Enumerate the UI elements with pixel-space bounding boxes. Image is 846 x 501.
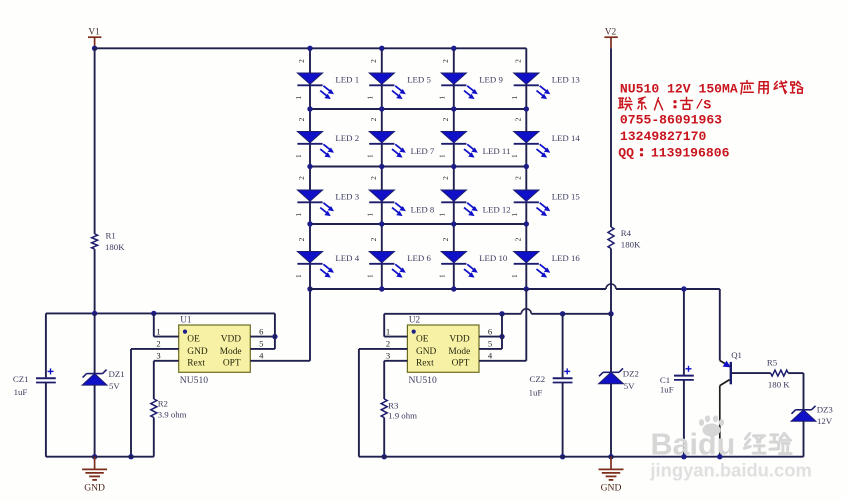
label R1 value 180K [105,242,125,252]
junction dot row tie 2 col4 [524,164,529,169]
svg-text:LED 5: LED 5 [407,75,431,85]
svg-text:LED 2: LED 2 [335,133,359,143]
wire R3 to ground rail [383,418,385,457]
label LED 15 [552,192,581,202]
zener diode DZ3 [791,406,816,422]
label R1 [106,230,116,240]
pin number U1.6 [259,326,264,336]
svg-text:2: 2 [513,176,522,180]
label U1 part NU510 [180,375,208,386]
pin number LED 3.2 [297,176,306,180]
label DZ2 value 5V [624,381,635,391]
svg-text:R1: R1 [106,230,116,240]
wire CZ1 to ground rail [45,383,47,457]
label R4 value 180K [621,239,641,249]
junction dot column1 rail A [307,286,312,291]
label DZ3 value 12V [817,416,833,426]
svg-text:2: 2 [369,59,378,63]
svg-text:1: 1 [366,274,375,278]
svg-text:CZ2: CZ2 [530,374,546,384]
junction dot row tie 3 col1 [307,221,312,226]
pin number LED 2.1 [294,154,303,158]
wire B2 to DZ2 [610,314,612,373]
LED LED 16 [514,252,551,278]
svg-text:1139196806: 1139196806 [651,146,730,161]
svg-text:2: 2 [297,59,306,63]
pin number LED 7.1 [366,154,375,158]
note line2 cjk [619,97,693,110]
svg-text:OPT: OPT [452,359,470,369]
svg-text:Baidu: Baidu [651,428,736,462]
watermark baidu jingyan [649,415,811,480]
junction dot rail A col2 [379,286,384,291]
label R5 value 180K [768,380,790,390]
label LED 5 [407,75,431,85]
junction dot top rail col2 [379,46,384,51]
label LED 9 [479,75,503,85]
label LED 8 [411,205,435,215]
wire rail A left segment [310,288,606,290]
svg-text:2: 2 [386,339,390,349]
wire U2 pin2 to ground [359,349,408,457]
svg-text:1: 1 [510,154,519,158]
label LED 6 [407,253,431,263]
junction dot U1 pin6 [272,334,277,339]
svg-text:2: 2 [297,117,306,121]
svg-text:LED 15: LED 15 [552,192,581,202]
junction dot row tie 3 col4 [524,221,529,226]
svg-text:5: 5 [259,339,263,349]
note line3 [620,113,722,128]
pin number LED 14.2 [513,117,522,121]
junction dot row tie 1 col2 [379,106,384,111]
svg-text:2: 2 [513,117,522,121]
label U2 [409,315,421,325]
junction dot C1 top [681,286,686,291]
wire rail A right segment [616,288,720,290]
wire U1 pin4 OPT to LED column 1 [250,289,310,361]
wire V2 vertical to R4 [610,48,612,227]
svg-text:Mode: Mode [220,347,242,357]
svg-text:4: 4 [259,351,264,361]
note line4 [620,129,707,144]
svg-text:jingyan.baidu.com: jingyan.baidu.com [649,460,811,481]
svg-text:LED 10: LED 10 [479,253,508,263]
capacitor CZ1 [36,368,56,382]
wire LED column 4 vertical [525,48,527,289]
svg-text:Mode: Mode [448,347,470,357]
junction dot R3 ground [382,454,387,459]
note line5 colon [641,149,642,155]
wire U2 pin5 tie to pin6 and B2 [479,314,502,349]
note line2 latin [696,98,712,113]
resistor R2 [151,399,157,418]
label CZ2 value 1uF [529,388,543,398]
svg-text:13249827170: 13249827170 [620,129,707,144]
pin number LED 9.1 [438,95,447,99]
pin number LED 13.1 [510,95,519,99]
svg-text:LED 4: LED 4 [335,253,359,263]
junction dot B1 at U1 pin1 [151,311,156,316]
ground GND1 [82,457,107,494]
svg-text:GND: GND [416,347,437,357]
LED LED 7 [369,132,406,158]
LED LED 15 [514,190,551,216]
pin number LED 3.1 [294,212,303,216]
resistor R3 [381,399,387,418]
junction dot row tie 1 col1 [307,106,312,111]
wire hop B2 over column 4 [521,309,531,314]
wire C1 to ground rail [683,380,685,457]
zener diode DZ1 [82,370,107,386]
wire U2 pin4 OPT to LED column 4 [479,289,526,361]
LED LED 11 [441,132,478,158]
junction dot C1 ground [681,454,686,459]
junction dot row tie 3 col2 [379,221,384,226]
svg-text:R4: R4 [621,228,632,238]
svg-text:LED 8: LED 8 [411,205,435,215]
svg-text:2: 2 [156,339,160,349]
wire CZ2 to ground rail [562,383,564,457]
wire U2 pin3 to R3 [384,361,407,399]
wire U2 pin1 to B2 [384,314,407,337]
svg-text:3: 3 [386,351,390,361]
pin number LED 5.2 [369,59,378,63]
LED LED 1 [297,73,334,99]
svg-text:180 K: 180 K [768,380,790,390]
wire B1 to CZ1 [45,313,47,377]
resistor R1 [92,234,98,249]
label DZ3 [817,404,834,414]
svg-text:2: 2 [441,176,450,180]
svg-text:1: 1 [438,95,447,99]
svg-text:1: 1 [294,212,303,216]
resistor R5 [771,370,789,376]
op-amp U2 NU510 [407,325,479,372]
label DZ1 [109,369,125,379]
junction dot DZ2 ground [608,454,613,459]
junction dot row tie 2 col1 [307,164,312,169]
svg-text:1: 1 [438,274,447,278]
svg-text:5: 5 [488,339,492,349]
svg-text:LED 9: LED 9 [479,75,503,85]
LED LED 14 [514,132,551,158]
wire B2 to CZ2 [562,314,564,378]
svg-text:2: 2 [441,59,450,63]
svg-text:U2: U2 [409,315,421,325]
svg-text:Rext: Rext [416,359,434,369]
pin number U2.2 [386,339,390,349]
svg-text:LED 3: LED 3 [335,192,359,202]
svg-text:2: 2 [441,117,450,121]
svg-text:2: 2 [369,176,378,180]
pin number U2.4 [488,351,493,361]
svg-text:R3: R3 [388,401,399,411]
label LED 12 [483,205,511,215]
svg-text:NU510: NU510 [409,375,437,386]
wire rail A to C1 [683,289,685,375]
label LED 14 [552,133,581,143]
junction dot Q1 collector ground [717,454,722,459]
wire DZ2 to ground rail [610,384,612,457]
svg-text:0755-86091963: 0755-86091963 [620,113,722,128]
svg-text:R2: R2 [158,398,168,408]
svg-text:C1: C1 [660,375,670,385]
svg-text:VDD: VDD [221,335,242,345]
pin number LED 9.2 [441,59,450,63]
svg-text:GND: GND [601,482,622,493]
LED LED 13 [514,73,551,99]
label R5 [767,357,778,367]
svg-text:DZ2: DZ2 [623,368,639,378]
label LED 3 [335,192,359,202]
svg-text:DZ1: DZ1 [109,369,125,379]
svg-text:LED 6: LED 6 [407,253,431,263]
wire rail A to Q1 emitter [719,289,721,361]
svg-text:1: 1 [386,326,390,336]
note line1 cjk [741,81,803,95]
svg-text:2: 2 [297,176,306,180]
pin number U2.5 [488,339,492,349]
op-amp U1 NU510 [179,325,251,372]
wire Q1 base to R5 [731,372,771,374]
note line1 latin [620,82,738,97]
svg-text:1: 1 [366,154,375,158]
pin number U2.1 [386,326,390,336]
pin number LED 14.1 [510,154,519,158]
svg-text:6: 6 [259,326,264,336]
svg-text:LED 1: LED 1 [335,75,359,85]
label LED 13 [552,75,581,85]
svg-text:2: 2 [369,117,378,121]
svg-text:1: 1 [366,95,375,99]
label DZ1 value 5V [109,381,120,391]
wire LED column 2 vertical [381,48,383,289]
label LED 11 [483,146,511,156]
wire top rail V1 to LED matrix [95,47,527,49]
note line5 QQ [618,146,634,161]
wire DZ3 to ground rail [803,421,805,456]
svg-text:V1: V1 [88,28,100,38]
pin number LED 16.1 [510,274,519,278]
svg-text:OE: OE [187,335,200,345]
LED LED 9 [441,73,478,99]
junction dot row tie 1 col4 [524,106,529,111]
wire R4 to node B2 [610,249,612,314]
label R4 [621,228,632,238]
svg-text:6: 6 [488,326,493,336]
svg-text:LED 11: LED 11 [483,146,511,156]
pin number LED 1.1 [294,95,303,99]
pin number U2.6 [488,326,493,336]
pin number LED 8.1 [366,212,375,216]
svg-text:2: 2 [513,59,522,63]
pin number LED 15.2 [513,176,522,180]
pin number U1.3 [156,351,160,361]
pin number LED 11.1 [438,154,447,158]
LED LED 3 [297,190,334,216]
junction dot row tie 3 col3 [451,221,456,226]
label LED 4 [335,253,359,263]
pin number U1.2 [156,339,160,349]
pin number U1.5 [259,339,263,349]
wire U1 pin6 [250,336,275,338]
junction dot B2 at U2 pins 5-6 [499,311,504,316]
wire node B2 left segment [384,313,521,315]
label Q1 [731,350,742,360]
junction dot B2 at V2 line [608,311,613,316]
LED LED 6 [369,252,406,278]
ground GND2 [599,457,624,494]
label LED 2 [335,133,359,143]
label DZ2 [623,368,639,378]
svg-text:DZ3: DZ3 [817,404,834,414]
svg-text:U1: U1 [180,315,192,325]
svg-text:2: 2 [297,237,306,241]
LED LED 12 [441,190,478,216]
svg-text:5V: 5V [624,381,635,391]
pin number LED 2.2 [297,117,306,121]
svg-text:1: 1 [438,212,447,216]
wire LED column 1 vertical [309,48,311,289]
junction dot B1 at DZ1 [92,311,97,316]
LED LED 5 [369,73,406,99]
pin number LED 12.1 [438,212,447,216]
svg-text:LED 14: LED 14 [552,133,581,143]
wire R2 to ground rail [153,418,155,457]
wire U1 pin5 tie to pin6 and B1 [250,313,275,349]
label U1 [180,315,192,325]
pin number LED 7.2 [369,117,378,121]
label LED 7 [411,146,435,156]
label C1 value 1uF [660,385,674,395]
power port V1 [88,28,101,49]
junction dot row tie 2 col2 [379,164,384,169]
svg-text:/S: /S [696,98,712,113]
svg-text:1: 1 [510,274,519,278]
label LED 1 [335,75,359,85]
pin number LED 11.2 [441,117,450,121]
label C1 [660,375,670,385]
svg-text:LED 16: LED 16 [552,253,581,263]
LED LED 10 [441,252,478,278]
svg-text:V2: V2 [605,28,617,38]
svg-text:1: 1 [294,274,303,278]
svg-text:180K: 180K [621,239,641,249]
svg-text:CZ1: CZ1 [13,374,29,384]
svg-text:4: 4 [488,351,493,361]
label R2 value 3.9 ohm [158,410,187,420]
wire DZ1 to ground rail [94,385,96,457]
pin number LED 10.2 [441,237,450,241]
svg-text:1uF: 1uF [529,388,543,398]
label CZ2 [530,374,546,384]
wire LED row tie 2 [310,166,526,168]
junction dot U2 pin6 [499,334,504,339]
svg-text:Q1: Q1 [731,350,742,360]
svg-text:1: 1 [156,326,160,336]
pin number LED 8.2 [369,176,378,180]
junction dot top rail col3 [451,46,456,51]
note line5 number [651,146,730,161]
node V1 junction dot [92,46,97,51]
svg-text:NU510: NU510 [180,375,208,386]
svg-text:1: 1 [294,154,303,158]
wire LED column 3 vertical [453,48,455,289]
wire node B1 horizontal [46,312,275,314]
power port V2 [604,28,617,49]
junction dot row tie 1 col3 [451,106,456,111]
LED LED 8 [369,190,406,216]
svg-text:180K: 180K [105,242,125,252]
zener diode DZ2 [599,368,624,384]
pin number LED 1.2 [297,59,306,63]
wire left ground rail [46,456,154,458]
wire right ground rail [359,456,804,458]
junction dot rail A col4 [524,286,529,291]
pin number LED 10.1 [438,274,447,278]
pin number LED 12.2 [441,176,450,180]
svg-text:OPT: OPT [223,359,241,369]
pin number LED 15.1 [510,212,519,216]
pin number U1.4 [259,351,264,361]
svg-text:3: 3 [156,351,160,361]
pin number U1.1 [156,326,160,336]
svg-text:5V: 5V [109,381,120,391]
label U2 part NU510 [409,375,437,386]
svg-text:12V: 12V [817,416,833,426]
junction dot DZ1 ground [92,454,97,459]
LED LED 4 [297,252,334,278]
label CZ1 [13,374,29,384]
svg-text:VDD: VDD [449,335,470,345]
svg-text:R5: R5 [767,357,778,367]
wire U1 pin3 to R2 [154,361,179,399]
label R2 [158,398,168,408]
svg-text:1uF: 1uF [660,385,674,395]
svg-text:LED 13: LED 13 [552,75,581,85]
svg-text:1: 1 [510,212,519,216]
junction dot row tie 2 col3 [451,164,456,169]
svg-text:QQ: QQ [618,146,634,161]
pin number U2.3 [386,351,390,361]
wire B1 to DZ1 [94,313,96,373]
junction dot rail A col3 [451,286,456,291]
svg-text:3.9 ohm: 3.9 ohm [158,410,187,420]
svg-text:2: 2 [369,237,378,241]
capacitor CZ2 [553,368,573,382]
svg-text:1: 1 [294,95,303,99]
svg-text:GND: GND [84,482,105,493]
wire U2 pin6 [479,336,502,338]
junction dot top rail col1 [307,46,312,51]
svg-text:1uF: 1uF [14,387,28,397]
LED LED 2 [297,132,334,158]
junction dot B2 at CZ2 [560,311,565,316]
svg-text:Rext: Rext [187,359,205,369]
pin number LED 5.1 [366,95,375,99]
wire R1 to node B1 [94,249,96,313]
wire hop rail A over V2 line [606,284,616,289]
label LED 16 [552,253,581,263]
svg-text:OE: OE [416,335,429,345]
pin number LED 16.2 [513,237,522,241]
pin number LED 4.2 [297,237,306,241]
junction dot CZ2 ground [560,454,565,459]
wire R5 to DZ3 [788,373,803,410]
label R3 value 1.9 ohm [388,410,417,420]
svg-text:2: 2 [513,237,522,241]
